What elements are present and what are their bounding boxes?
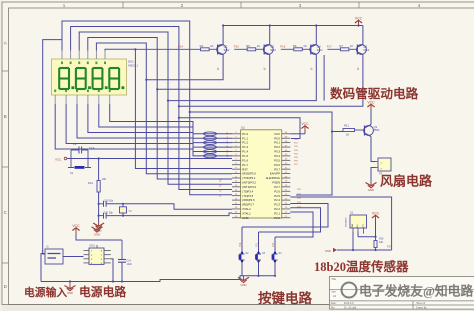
svg-text:(T0)P3.4: (T0)P3.4 (242, 189, 253, 193)
svg-text:9012: 9012 (363, 48, 369, 52)
svg-text:P0.6: P0.6 (274, 163, 280, 167)
svg-text:Sheet of: Sheet of (416, 302, 425, 305)
svg-text:P2.6: P2.6 (274, 189, 280, 193)
svg-text:P27: P27 (387, 246, 392, 249)
svg-text:R4: R4 (200, 44, 204, 48)
svg-text:1K: 1K (257, 44, 261, 48)
svg-text:B: B (4, 114, 7, 119)
svg-text:9012: 9012 (270, 48, 276, 52)
svg-text:RST: RST (242, 167, 248, 171)
svg-text:VCC: VCC (355, 17, 363, 21)
svg-text:(RD)P3.7: (RD)P3.7 (242, 203, 254, 207)
svg-text:P1.4: P1.4 (242, 150, 248, 154)
svg-text:(WR)P3.6: (WR)P3.6 (242, 198, 255, 202)
svg-text:电源输入: 电源输入 (24, 285, 67, 299)
svg-text:Drawn By:: Drawn By: (416, 306, 427, 309)
svg-text:数码管驱动电路: 数码管驱动电路 (330, 86, 419, 101)
svg-text:Title: Title (331, 277, 336, 281)
svg-text:1K: 1K (350, 44, 354, 48)
svg-text:R11: R11 (344, 124, 349, 128)
svg-text:1K: 1K (210, 44, 214, 48)
svg-text:GND: GND (67, 291, 73, 295)
svg-text:P0.5: P0.5 (274, 158, 280, 162)
svg-text:GND: GND (352, 223, 354, 228)
svg-text:C11 30p: C11 30p (104, 211, 114, 214)
svg-text:P2.1: P2.1 (274, 211, 280, 215)
svg-text:电子发烧友@知电路: 电子发烧友@知电路 (359, 284, 473, 299)
svg-text:C3: C3 (73, 142, 77, 146)
svg-text:P1.7: P1.7 (242, 163, 248, 167)
svg-text:P1.6: P1.6 (242, 158, 248, 162)
svg-text:10uF: 10uF (127, 263, 133, 266)
svg-text:GND: GND (325, 249, 331, 253)
svg-text:(INT0)P3.2: (INT0)P3.2 (242, 181, 256, 185)
svg-text:VCC: VCC (301, 122, 309, 126)
svg-text:按键电路: 按键电路 (258, 290, 312, 306)
svg-text:ALE/PROG: ALE/PROG (266, 176, 280, 180)
svg-text:风扇电路: 风扇电路 (380, 174, 433, 189)
svg-text:Size: Size (331, 291, 336, 294)
svg-text:Date:: Date: (331, 302, 337, 305)
svg-text:R6: R6 (293, 44, 297, 48)
svg-text:GND: GND (94, 232, 100, 236)
svg-text:XTAL1: XTAL1 (242, 211, 251, 215)
svg-text:P2.3: P2.3 (274, 203, 280, 207)
svg-text:2013-6-8: 2013-6-8 (344, 302, 354, 305)
svg-text:U1: U1 (350, 211, 354, 215)
svg-text:10K: 10K (379, 241, 384, 244)
svg-text:P0.0: P0.0 (274, 136, 280, 140)
svg-text:GND: GND (241, 283, 247, 287)
svg-text:R1A: R1A (88, 181, 93, 185)
svg-text:GND: GND (242, 216, 248, 220)
svg-text:P0.7: P0.7 (274, 167, 280, 171)
svg-text:A4: A4 (333, 294, 337, 298)
svg-text:(INT1)P3.3: (INT1)P3.3 (242, 185, 256, 189)
svg-text:P10: P10 (239, 242, 242, 247)
svg-text:C10 30p: C10 30p (104, 200, 114, 203)
svg-text:(TXD)P3.1: (TXD)P3.1 (242, 176, 256, 180)
svg-text:S1: S1 (70, 171, 74, 175)
svg-text:P1.3: P1.3 (242, 145, 248, 149)
svg-text:(RXD)P3.0: (RXD)P3.0 (242, 172, 256, 176)
svg-text:P2.7: P2.7 (274, 185, 280, 189)
svg-text:R5: R5 (246, 44, 250, 48)
svg-text:EA/VPP: EA/VPP (270, 172, 280, 176)
svg-text:P1.5: P1.5 (242, 154, 248, 158)
svg-text:VCC: VCC (363, 223, 365, 228)
svg-text:8550: 8550 (374, 128, 380, 132)
svg-text:P14: P14 (178, 45, 183, 49)
svg-text:电源电路: 电源电路 (79, 285, 126, 299)
svg-text:A: A (4, 40, 7, 45)
svg-text:Y1: Y1 (129, 209, 133, 213)
svg-text:(T1)P3.5: (T1)P3.5 (242, 194, 253, 198)
svg-text:VCC: VCC (372, 212, 380, 216)
svg-text:P11: P11 (256, 242, 259, 247)
svg-text:File:: File: (331, 306, 336, 309)
svg-text:DS18B20: DS18B20 (346, 217, 348, 227)
svg-text:DS1: DS1 (128, 60, 134, 64)
svg-text:GN1: GN1 (90, 244, 96, 248)
svg-text:P0.2: P0.2 (274, 145, 280, 149)
svg-text:10K: 10K (102, 177, 107, 181)
svg-text:P1.1: P1.1 (242, 136, 248, 140)
svg-text:VCC: VCC (274, 132, 280, 136)
svg-text:P16: P16 (280, 45, 285, 49)
svg-text:GND: GND (368, 188, 374, 192)
svg-text:10uF: 10uF (89, 147, 95, 150)
svg-text:R7: R7 (339, 44, 343, 48)
svg-text:18b20温度传感器: 18b20温度传感器 (314, 259, 409, 274)
svg-text:P1.2: P1.2 (242, 141, 248, 145)
svg-text:P0.1: P0.1 (274, 141, 280, 145)
svg-text:9012: 9012 (317, 48, 323, 52)
svg-text:P12: P12 (272, 242, 275, 247)
svg-text:P15: P15 (234, 45, 239, 49)
svg-text:P2.2: P2.2 (274, 207, 280, 211)
svg-text:D:\..\01.ddb: D:\..\01.ddb (344, 306, 357, 309)
svg-text:VCC: VCC (72, 224, 80, 228)
svg-text:1K: 1K (303, 44, 307, 48)
svg-text:4SEG_1: 4SEG_1 (128, 64, 138, 68)
svg-text:9012: 9012 (224, 48, 230, 52)
svg-text:U2: U2 (241, 125, 245, 129)
svg-text:P2.5: P2.5 (274, 194, 280, 198)
svg-text:VCC: VCC (55, 158, 62, 162)
svg-text:P1.0: P1.0 (242, 132, 248, 136)
svg-text:P2.0: P2.0 (274, 216, 280, 220)
svg-text:1K: 1K (346, 133, 350, 137)
svg-text:P0.3: P0.3 (274, 150, 280, 154)
svg-text:P17: P17 (327, 45, 332, 49)
svg-text:PSEN: PSEN (272, 181, 280, 185)
svg-text:XTAL2: XTAL2 (242, 207, 251, 211)
svg-text:P0.4: P0.4 (274, 154, 280, 158)
svg-text:P2.4: P2.4 (274, 198, 280, 202)
